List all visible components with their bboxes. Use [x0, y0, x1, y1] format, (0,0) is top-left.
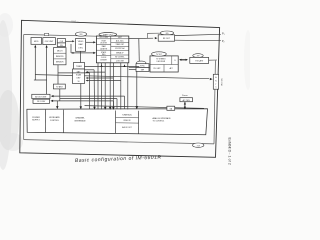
svg-text:2-64 ·-·: 2-64 ·-·	[71, 20, 79, 23]
svg-text:VIDEO: VIDEO	[78, 41, 84, 43]
svg-text:MULTI: MULTI	[57, 50, 63, 52]
svg-text:POWER: POWER	[32, 117, 40, 119]
svg-text:SENSOR: SENSOR	[56, 62, 64, 64]
svg-text:201: 201	[80, 34, 83, 36]
svg-text:Basic configuration of IM-660: Basic configuration of IM-6601R	[75, 155, 162, 164]
svg-text:CTRL: CTRL	[78, 48, 83, 50]
svg-text:SUPPLY: SUPPLY	[32, 120, 40, 122]
svg-text:14 I/O LINE: 14 I/O LINE	[116, 60, 124, 62]
svg-text:DECODER: DECODER	[157, 61, 166, 63]
svg-text:AUDIO OUT: AUDIO OUT	[122, 126, 131, 129]
svg-text:AC 230V: AC 230V	[183, 99, 191, 102]
svg-text:REMOTE: REMOTE	[56, 56, 64, 58]
svg-text:KEYBOARD: KEYBOARD	[49, 116, 60, 119]
svg-text:TV ANT: TV ANT	[56, 85, 63, 88]
svg-text:TUNER AGC: TUNER AGC	[122, 113, 133, 116]
svg-text:MOD: MOD	[34, 41, 39, 43]
svg-text:T: T	[215, 84, 216, 86]
svg-text:TIMER CNT: TIMER CNT	[115, 44, 124, 46]
svg-text:RF OUT: RF OUT	[163, 38, 171, 40]
svg-text:PLL UNIT: PLL UNIT	[154, 68, 161, 70]
svg-text:4K BYTE: 4K BYTE	[100, 43, 107, 45]
svg-text:RAM: RAM	[79, 43, 83, 46]
svg-text:ANALOG INTERFACE: ANALOG INTERFACE	[153, 117, 172, 120]
svg-text:213: 213	[197, 145, 200, 147]
svg-text:16: 16	[78, 81, 80, 83]
svg-text:TO CONTROL: TO CONTROL	[153, 121, 165, 123]
svg-text:CPU CORE: CPU CORE	[99, 37, 107, 39]
svg-text:VIDEO IF: VIDEO IF	[123, 120, 130, 122]
svg-text:I/O PORT 4x8: I/O PORT 4x8	[115, 48, 125, 50]
svg-text:P₁: P₁	[222, 33, 225, 36]
svg-text:RF CONV: RF CONV	[37, 101, 46, 103]
svg-text:DIVIDER: DIVIDER	[100, 60, 107, 62]
svg-text:CONTROL: CONTROL	[50, 120, 59, 122]
svg-text:128 BYTE: 128 BYTE	[100, 48, 107, 50]
svg-text:TV 207: TV 207	[156, 54, 162, 56]
svg-text:INT CONTROL: INT CONTROL	[115, 56, 125, 58]
svg-text:75Ω COAX: 75Ω COAX	[220, 78, 223, 87]
svg-text:MAIN CPU: MAIN CPU	[103, 33, 113, 36]
svg-text:4-BIT: 4-BIT	[118, 37, 122, 39]
svg-text:TV/CATV: TV/CATV	[195, 59, 204, 62]
svg-text:CHANNEL: CHANNEL	[75, 117, 85, 120]
svg-text:ROM: ROM	[102, 41, 107, 43]
svg-text:OSC UNIT: OSC UNIT	[45, 41, 54, 43]
svg-text:RAM: RAM	[102, 45, 106, 48]
svg-text:P₂: P₂	[222, 40, 225, 43]
svg-text:TIMER: TIMER	[76, 66, 83, 68]
svg-text:SCAN: SCAN	[76, 74, 82, 77]
svg-text:AV OUT UNIT: AV OUT UNIT	[35, 95, 47, 98]
svg-text:Exhibit D - 1 of 2: Exhibit D - 1 of 2	[227, 138, 231, 165]
svg-text:CLOCK: CLOCK	[101, 57, 107, 59]
svg-text:INTERFACE: INTERFACE	[74, 119, 86, 122]
svg-text:Power: Power	[182, 95, 188, 97]
